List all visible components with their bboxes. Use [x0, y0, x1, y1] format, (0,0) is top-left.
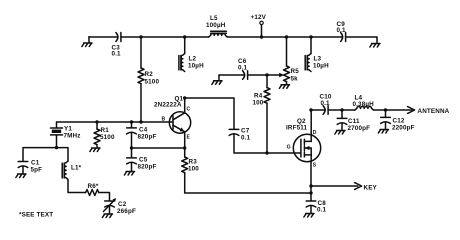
capacitor C9: [337, 21, 347, 42]
svg-text:+12V: +12V: [251, 14, 267, 21]
svg-text:C5: C5: [139, 157, 148, 164]
transistor Q2 (IRF511 MOSFET): [286, 110, 321, 169]
transistor Q1 (2N2222A BJT): [154, 96, 191, 149]
node Q2 drain: [309, 108, 312, 111]
wire base line from crystal to Q1: [57, 121, 174, 123]
node R4/gate: [265, 151, 268, 154]
ground for R1: [90, 148, 100, 152]
svg-text:2700pF: 2700pF: [348, 125, 371, 132]
resistor R6: [86, 183, 99, 196]
svg-text:C: C: [187, 107, 191, 113]
svg-text:100: 100: [253, 100, 264, 107]
svg-text:820pF: 820pF: [138, 164, 157, 171]
svg-text:R6*: R6*: [88, 183, 99, 190]
svg-text:266pF: 266pF: [117, 208, 136, 215]
svg-text:820pF: 820pF: [138, 134, 157, 141]
ground for C2: [102, 214, 112, 218]
capacitor C8: [306, 200, 326, 214]
inductor L1: [62, 161, 81, 179]
svg-text:0.1: 0.1: [241, 135, 251, 142]
ground for C12: [378, 130, 388, 134]
svg-text:5100: 5100: [145, 79, 160, 86]
inductor L4: [342, 95, 386, 111]
capacitor C6: [238, 58, 248, 79]
node C12: [384, 108, 387, 111]
svg-text:0.1: 0.1: [321, 100, 331, 107]
inductor L5: [206, 15, 227, 37]
resistor R3: [182, 148, 311, 193]
ground top-right: [370, 37, 380, 47]
svg-text:5pF: 5pF: [31, 167, 43, 174]
wire top rail left: [89, 36, 118, 38]
svg-text:C1: C1: [31, 160, 40, 167]
ground for C6: [212, 75, 222, 84]
node KEY branch: [309, 184, 312, 187]
node C6/R4/wiper: [265, 73, 268, 76]
node C11: [340, 108, 343, 111]
svg-text:R5: R5: [291, 68, 300, 75]
svg-text:R4: R4: [254, 93, 263, 100]
svg-text:C7: C7: [241, 128, 250, 135]
svg-text:2200pF: 2200pF: [392, 125, 415, 132]
svg-text:ANTENNA: ANTENNA: [418, 108, 450, 115]
wire and arrow to antenna: [386, 107, 450, 115]
ground for C5: [124, 172, 134, 176]
svg-text:0.1: 0.1: [337, 27, 347, 34]
wire top rail right of L5: [227, 36, 342, 38]
inductor L3: [305, 37, 329, 71]
wire L1 to R6: [68, 180, 86, 193]
svg-text:C12: C12: [393, 118, 405, 125]
node C4/C5/emitter: [130, 146, 133, 149]
capacitor C10: [311, 94, 342, 115]
node B: [183, 35, 186, 38]
wire wiper arm: [267, 74, 280, 76]
svg-text:L3: L3: [314, 56, 322, 63]
wire Q2 source down: [310, 162, 312, 201]
svg-text:G: G: [287, 145, 291, 151]
wire from C9 to ground: [346, 36, 377, 38]
svg-text:5k: 5k: [291, 76, 299, 83]
capacitor C5: [127, 157, 157, 172]
svg-text:Y1: Y1: [64, 126, 72, 133]
node Q1 collector: [183, 96, 186, 99]
svg-text:C2: C2: [118, 201, 127, 208]
svg-text:100µH: 100µH: [206, 22, 226, 29]
wire R6 to C2: [99, 193, 110, 201]
wire C4 to C5: [131, 133, 133, 158]
svg-text:0.1: 0.1: [238, 65, 248, 72]
resistor R4: [253, 75, 271, 153]
svg-text:0.1: 0.1: [112, 51, 122, 58]
wire crystal node to C1: [23, 148, 57, 161]
wire C6 to node: [248, 74, 267, 76]
resistor R2: [138, 37, 159, 122]
node C4 top: [130, 120, 133, 123]
ground for C8: [304, 214, 314, 218]
variable capacitor C2: [103, 198, 136, 215]
wire and arrow to key: [311, 183, 378, 192]
svg-text:C11: C11: [348, 118, 360, 125]
wire crystal node to L1: [57, 148, 69, 161]
svg-text:10µH: 10µH: [313, 63, 329, 70]
wiper arrow into R5: [279, 73, 284, 78]
+12V supply terminal: [251, 14, 267, 37]
svg-text:R1: R1: [101, 127, 110, 134]
potentiometer R5: [284, 37, 300, 85]
svg-text:0.38µH: 0.38µH: [353, 101, 375, 108]
svg-text:D: D: [313, 130, 317, 136]
svg-text:5100: 5100: [100, 134, 115, 141]
node C: [260, 35, 263, 38]
node A: [139, 35, 142, 38]
node R3 line / Q2 source: [309, 191, 312, 194]
svg-text:R3: R3: [189, 159, 198, 166]
ground for C1: [16, 174, 26, 178]
wire collector to C7: [185, 98, 234, 129]
svg-text:L1*: L1*: [71, 165, 82, 172]
svg-text:2N2222A: 2N2222A: [154, 102, 182, 109]
svg-text:10µH: 10µH: [188, 63, 204, 70]
resistor R1: [94, 122, 115, 148]
node E: [309, 35, 312, 38]
svg-text:C4: C4: [139, 127, 148, 134]
svg-text:KEY: KEY: [364, 185, 378, 192]
node D: [285, 35, 288, 38]
ground top-left: [82, 37, 92, 47]
svg-text:*SEE TEXT: *SEE TEXT: [19, 212, 53, 219]
node Q1 emitter: [183, 146, 186, 149]
wire ground to C6: [219, 74, 245, 76]
svg-text:0.1: 0.1: [317, 207, 327, 214]
capacitor C11: [337, 110, 370, 132]
capacitor C7: [229, 128, 250, 142]
node below crystal: [55, 146, 58, 149]
capacitor C1: [18, 160, 42, 175]
svg-text:100: 100: [188, 166, 199, 173]
capacitor C4: [127, 122, 157, 141]
svg-text:L2: L2: [189, 56, 197, 63]
svg-text:B: B: [162, 117, 166, 123]
ground for C11: [335, 131, 345, 135]
svg-text:IRF511: IRF511: [286, 125, 308, 132]
node R2 bottom: [139, 120, 142, 123]
wire emitter to C4/C5 node: [132, 147, 185, 149]
wire top rail middle: [121, 36, 209, 38]
crystal Y1: [51, 122, 81, 148]
capacitor C3: [112, 33, 122, 58]
wire C7 to gate line: [234, 134, 301, 153]
svg-text:7MHz: 7MHz: [64, 133, 81, 140]
svg-text:R2: R2: [145, 71, 154, 78]
svg-text:L5: L5: [210, 15, 218, 22]
node R1 top: [95, 120, 98, 123]
inductor L2: [179, 37, 204, 71]
capacitor C12: [381, 110, 415, 132]
ground for R5: [279, 85, 289, 89]
